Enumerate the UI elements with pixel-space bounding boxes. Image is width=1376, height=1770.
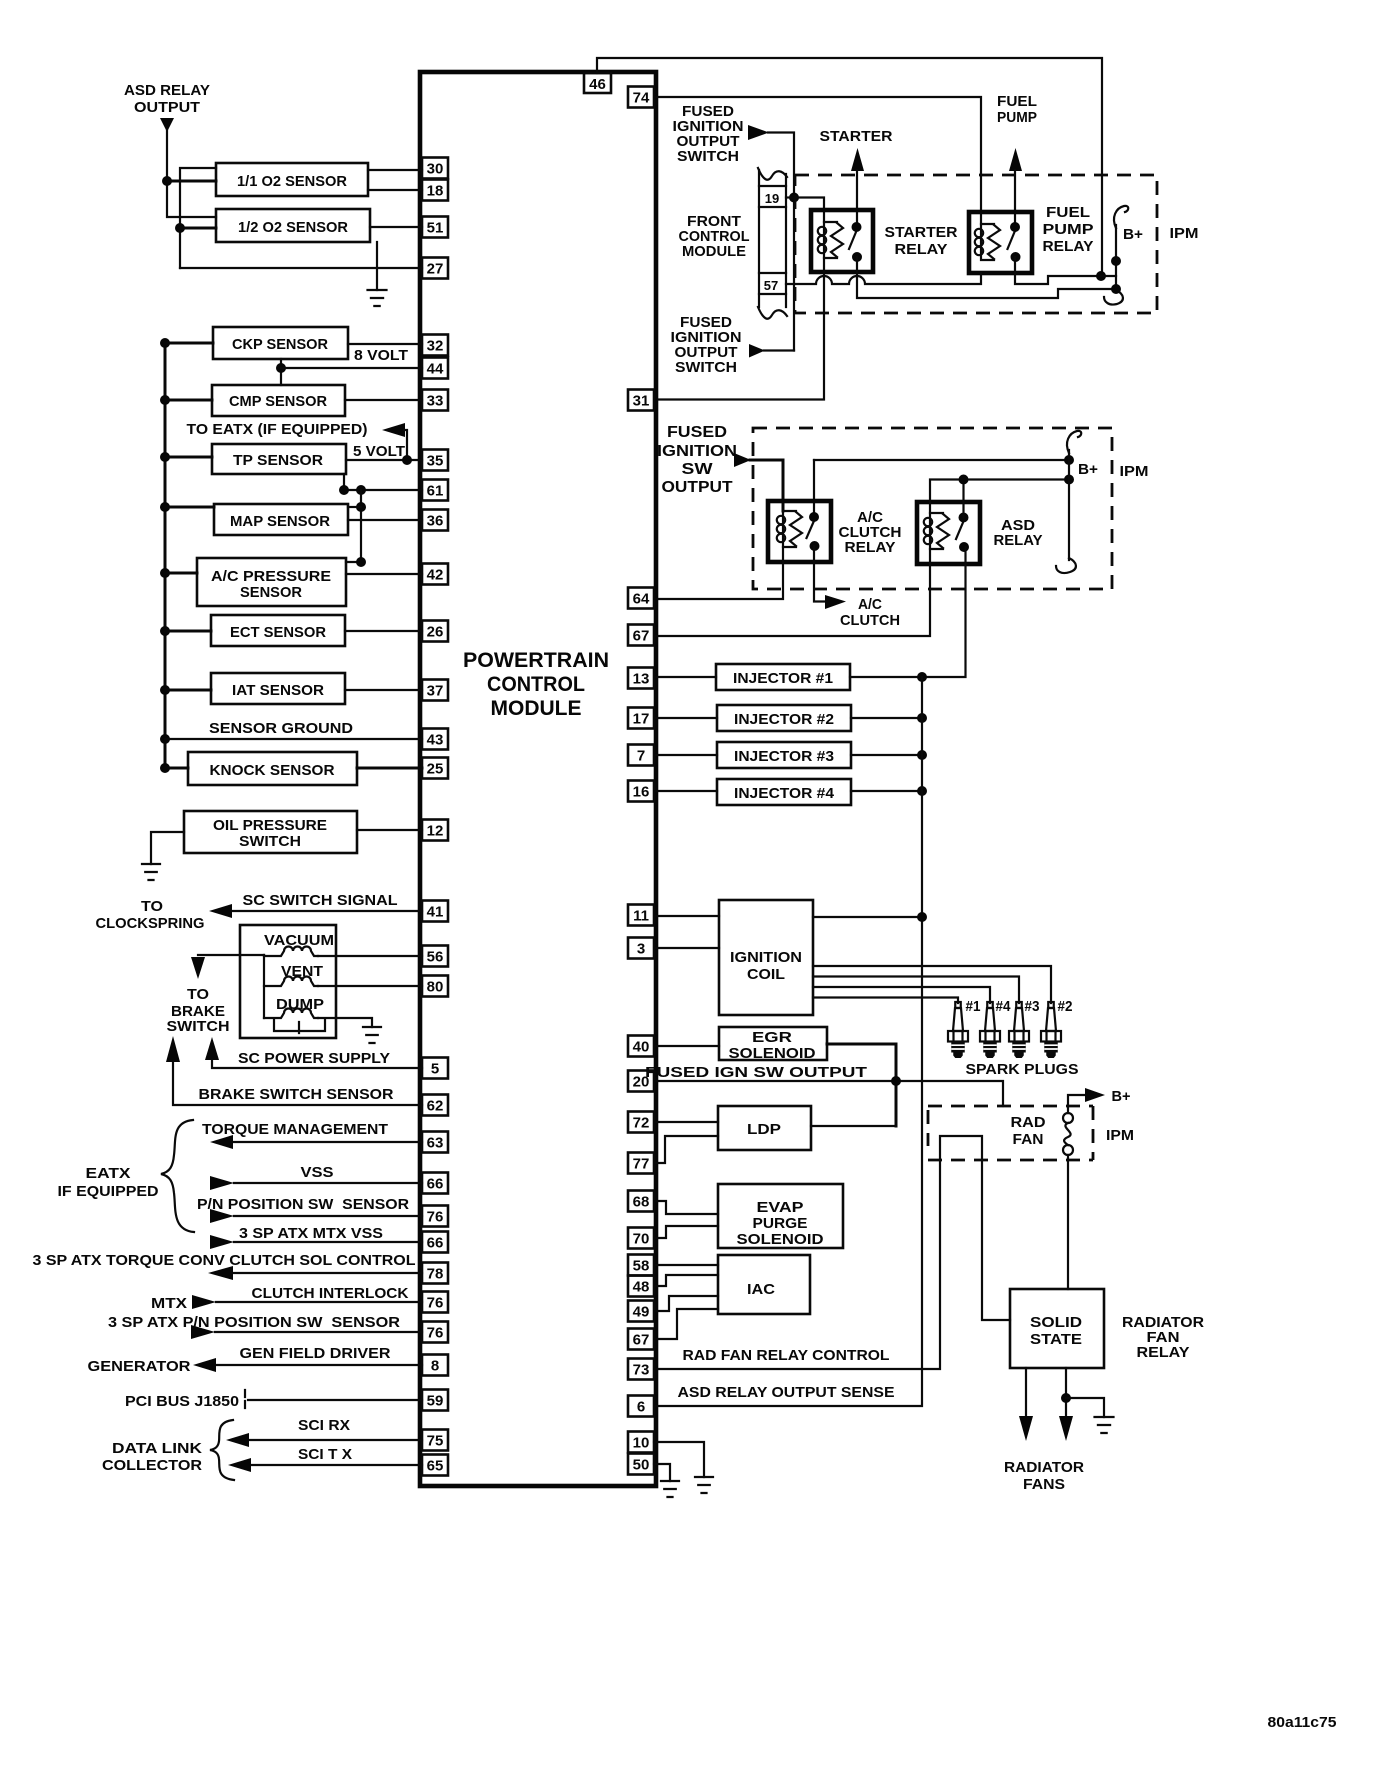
svg-text:8: 8: [431, 1358, 439, 1375]
wire bus to CMP: [165, 399, 212, 402]
wire pin 11 to ignition coil: [656, 915, 719, 917]
wire TP to pin 35: [346, 459, 422, 461]
pin 62 (PCM left): [422, 1095, 448, 1116]
svg-text:IGNITION: IGNITION: [657, 443, 737, 460]
wire dump bracket: [274, 1020, 325, 1033]
svg-text:ECT SENSOR: ECT SENSOR: [230, 624, 326, 641]
B+ rail (IPM 2): [1068, 450, 1070, 560]
svg-text:RELAY: RELAY: [1043, 238, 1094, 255]
wire MAP to pin 36: [348, 519, 422, 521]
component KNOCK SENSOR: [188, 752, 357, 785]
ground (O2 sensor): [368, 290, 387, 306]
wire pin 76 ATX P/N position: [215, 1331, 422, 1333]
wire pin 46 to B+ feed (top run): [597, 58, 1102, 276]
wire fan output left: [1025, 1368, 1027, 1416]
svg-text:58: 58: [633, 1258, 650, 1275]
pin 18 (PCM left): [422, 180, 448, 201]
svg-text:IAC: IAC: [747, 1281, 775, 1298]
svg-text:63: 63: [427, 1135, 444, 1152]
wire to pin 44: [281, 367, 422, 369]
node AC pressure 5V: [356, 557, 366, 567]
label DATA LINK COLLECTOR: [102, 1440, 202, 1474]
wire pin 66 ATX MTX VSS: [234, 1241, 422, 1243]
wire starter relay switch to starter: [856, 170, 858, 227]
pin 75 (PCM left): [422, 1430, 448, 1451]
wire sensor ground to pin 43: [165, 738, 422, 740]
spark plug #4: [980, 1002, 1000, 1058]
wire pin19 to starter relay coil: [794, 198, 824, 223]
wire pin 61 line: [344, 489, 422, 491]
arrow B+ (rad fan): [1085, 1088, 1105, 1102]
svg-text:16: 16: [633, 784, 650, 801]
wire O2 1/1 to pin 18: [368, 189, 422, 191]
node junction on ASD wire: [162, 176, 172, 186]
node ECT bus: [160, 626, 170, 636]
wire lower fused ignition link: [764, 349, 794, 351]
component CKP SENSOR: [213, 327, 348, 359]
svg-text:CKP SENSOR: CKP SENSOR: [232, 336, 328, 353]
arrow radiator fan right: [1059, 1416, 1073, 1441]
pin 56 (PCM left): [422, 946, 448, 967]
component TP SENSOR: [212, 444, 346, 474]
svg-text:10: 10: [633, 1435, 650, 1452]
pin 64 (PCM right): [628, 588, 654, 609]
pin 17 (PCM right): [628, 708, 654, 729]
pin 48 (PCM right): [628, 1276, 654, 1297]
wire pin 64 to A/C relay coil: [656, 547, 783, 599]
wire ACP to pin 42: [346, 573, 422, 575]
pin 31 (PCM right): [628, 390, 654, 411]
svg-text:COLLECTOR: COLLECTOR: [102, 1457, 202, 1474]
wire pin 10 to ground: [654, 1442, 704, 1477]
svg-text:#3: #3: [1025, 998, 1040, 1015]
svg-text:76: 76: [427, 1295, 444, 1312]
pin 43 (PCM left): [422, 729, 448, 750]
component IGNITION COIL: [719, 900, 813, 1015]
label STARTER RELAY: [885, 224, 958, 258]
svg-text:72: 72: [633, 1115, 650, 1132]
svg-text:VSS: VSS: [301, 1164, 334, 1181]
pin 76 (PCM left): [422, 1322, 448, 1343]
wire coil secondary to plug 1: [813, 998, 958, 1004]
node TP bus: [160, 452, 170, 462]
svg-text:SPARK PLUGS: SPARK PLUGS: [966, 1061, 1079, 1078]
svg-text:ASD RELAY OUTPUT SENSE: ASD RELAY OUTPUT SENSE: [678, 1384, 895, 1401]
wire pin 40 to EGR: [656, 1045, 719, 1047]
svg-text:3 SP ATX TORQUE CONV CLUTCH SO: 3 SP ATX TORQUE CONV CLUTCH SOL CONTROL: [33, 1252, 416, 1269]
relay A/C CLUTCH RELAY: [768, 501, 831, 562]
pin 70 (PCM right): [628, 1228, 654, 1249]
pin 50 (PCM right): [628, 1454, 654, 1475]
svg-text:65: 65: [427, 1458, 444, 1475]
svg-text:OUTPUT: OUTPUT: [134, 99, 200, 116]
wire 5V to MAP: [348, 506, 361, 508]
arrow MTX clutch interlock: [192, 1295, 216, 1309]
arrow down to brake switch: [191, 957, 205, 979]
wire pin 49 to IAC: [656, 1296, 718, 1311]
pin 7 (PCM right): [628, 745, 654, 766]
pin 36 (PCM left): [422, 510, 448, 531]
svg-text:MTX: MTX: [151, 1295, 187, 1312]
svg-text:27: 27: [427, 261, 444, 278]
ground (dump solenoid): [363, 1027, 381, 1043]
svg-text:46: 46: [589, 76, 606, 93]
wire pin 8 gen field driver: [216, 1364, 422, 1366]
svg-text:RAD: RAD: [1011, 1114, 1046, 1131]
wire CKP to pin 32: [348, 343, 422, 345]
node CKP bus: [160, 338, 170, 348]
IPM dashed enclosure (A/C clutch / ASD): [753, 428, 1112, 589]
label FUSED IGNITION OUTPUT SWITCH (upper): [673, 103, 744, 165]
arrow down from ASD RELAY OUTPUT: [160, 118, 174, 132]
svg-text:FUEL: FUEL: [997, 93, 1037, 110]
svg-text:SC SWITCH SIGNAL: SC SWITCH SIGNAL: [243, 892, 398, 909]
svg-text:P/N POSITION SW SENSOR: P/N POSITION SW SENSOR: [197, 1196, 409, 1213]
component EVAP PURGE SOLENOID: [718, 1184, 843, 1248]
wire bus to CKP: [165, 342, 213, 345]
component INJECTOR #4: [717, 779, 851, 805]
node B+ lower: [1111, 284, 1121, 294]
svg-text:26: 26: [427, 624, 444, 641]
pin 27 (PCM left): [422, 258, 448, 279]
component OIL PRESSURE SWITCH: [184, 811, 357, 853]
wire 5V distribution vertical: [346, 490, 361, 562]
component 1/1 O2 SENSOR: [216, 163, 368, 196]
svg-text:7: 7: [637, 748, 645, 765]
svg-text:SOLENOID: SOLENOID: [729, 1045, 816, 1062]
component speed control servo box: [240, 925, 336, 1038]
svg-text:SWITCH: SWITCH: [677, 148, 739, 165]
wire TP ground stub: [343, 474, 345, 490]
wire pin 59 PCI bus: [248, 1399, 422, 1401]
arrow torque conv clutch: [208, 1266, 233, 1280]
component IAC: [718, 1255, 810, 1314]
wire bus to IAT: [165, 689, 211, 692]
svg-text:CLUTCH: CLUTCH: [840, 612, 900, 629]
svg-text:1/1 O2 SENSOR: 1/1 O2 SENSOR: [237, 173, 347, 190]
svg-text:19: 19: [765, 191, 779, 206]
label FRONT CONTROL MODULE: [679, 213, 750, 260]
svg-text:INJECTOR #1: INJECTOR #1: [733, 670, 833, 687]
B+ hook bottom (IPM 2): [1056, 558, 1076, 573]
wire oil pressure to pin 12: [357, 829, 422, 831]
wire ASD B+ feed: [930, 480, 1069, 514]
wire pin 75 SCI RX: [249, 1439, 422, 1441]
svg-text:56: 56: [427, 949, 444, 966]
svg-text:SENSOR: SENSOR: [240, 584, 302, 601]
pin 68 (PCM right): [628, 1191, 654, 1212]
svg-text:48: 48: [633, 1279, 650, 1296]
svg-text:TO: TO: [187, 986, 209, 1003]
pin 65 (PCM left): [422, 1455, 448, 1476]
pin 80 (PCM left): [422, 976, 448, 997]
wire breaker to solid state relay: [1067, 1155, 1069, 1289]
pin 37 (PCM left): [422, 680, 448, 701]
wire pin 72 to LDP: [656, 1121, 718, 1123]
arrow fused ignition lower: [749, 344, 765, 358]
svg-text:#1: #1: [966, 998, 981, 1015]
label ASD RELAY OUTPUT: [124, 82, 210, 116]
svg-text:SW: SW: [682, 461, 714, 478]
component CMP SENSOR: [212, 385, 345, 416]
PCM module outline: [420, 72, 656, 1486]
ground (rad fan relay): [1095, 1417, 1114, 1433]
pin 59 (PCM left): [422, 1390, 448, 1411]
label ASD RELAY: [994, 517, 1043, 549]
svg-text:73: 73: [633, 1362, 650, 1379]
arrow up FUEL PUMP: [1009, 148, 1022, 171]
node FCM pin 19 junction: [789, 193, 799, 203]
svg-text:25: 25: [427, 761, 444, 778]
node B+ A/C feed: [1064, 455, 1074, 465]
arrow generator: [193, 1358, 216, 1372]
label RADIATOR FANS: [1004, 1459, 1084, 1493]
svg-text:INJECTOR #2: INJECTOR #2: [734, 711, 834, 728]
svg-text:3 SP ATX MTX VSS: 3 SP ATX MTX VSS: [239, 1225, 383, 1242]
svg-text:COIL: COIL: [747, 966, 785, 983]
svg-text:B+: B+: [1112, 1088, 1131, 1105]
svg-text:50: 50: [633, 1457, 650, 1474]
svg-text:TP SENSOR: TP SENSOR: [233, 452, 323, 469]
svg-text:FUEL: FUEL: [1046, 204, 1090, 221]
ground (pin 50): [661, 1481, 679, 1497]
node ACP bus: [160, 568, 170, 578]
wire second O2 branch vertical: [180, 168, 216, 268]
svg-text:B+: B+: [1123, 226, 1143, 243]
svg-text:PUMP: PUMP: [997, 109, 1037, 126]
pin 63 (PCM left): [422, 1132, 448, 1153]
component INJECTOR #3: [717, 742, 851, 768]
wire bus to TP: [165, 456, 212, 459]
wire INJECTOR #3 to ASD bus: [851, 754, 922, 756]
svg-text:SWITCH: SWITCH: [675, 359, 737, 376]
pin 16 (PCM right): [628, 781, 654, 802]
label EATX IF EQUIPPED: [58, 1165, 159, 1200]
pin 40 (PCM right): [628, 1036, 654, 1057]
node ASD switch feed: [959, 475, 969, 485]
svg-text:32: 32: [427, 338, 444, 355]
arrow up to brake switch (power): [205, 1037, 219, 1060]
svg-text:#4: #4: [996, 998, 1012, 1015]
solenoid DUMP coil: [264, 1009, 318, 1019]
svg-text:STATE: STATE: [1030, 1331, 1082, 1348]
wire pin 73 rad fan relay control: [656, 1136, 1010, 1369]
pin 66 (PCM left): [422, 1232, 448, 1253]
wire O2 1/1 to pin 30: [368, 169, 422, 171]
svg-text:PUMP: PUMP: [1043, 221, 1094, 238]
node MAP bus: [160, 502, 170, 512]
svg-text:OUTPUT: OUTPUT: [662, 479, 733, 496]
pin 58 (PCM right): [628, 1255, 654, 1276]
wire pin 62 brake switch sensor: [173, 1061, 422, 1105]
label FUSED IGNITION OUTPUT SWITCH (lower): [671, 314, 742, 376]
component IAT SENSOR: [211, 673, 345, 704]
wire pin 48 to IAC: [656, 1275, 718, 1286]
B+ hook top (IPM 2): [1067, 431, 1081, 453]
label RADIATOR FAN RELAY: [1122, 1314, 1204, 1361]
svg-text:GEN FIELD DRIVER: GEN FIELD DRIVER: [240, 1345, 391, 1362]
component INJECTOR #1: [716, 664, 850, 690]
pin 5 (PCM left): [422, 1058, 448, 1079]
wire pin 68 to EVAP: [656, 1201, 718, 1214]
wire pin 66 VSS: [234, 1182, 422, 1184]
pin 78 (PCM left): [422, 1263, 448, 1284]
wire to A/C clutch relay coil: [750, 460, 783, 511]
wire EGR to fused ign feed: [827, 1044, 896, 1126]
pin 25 (PCM left): [422, 758, 448, 779]
svg-text:RELAY: RELAY: [895, 241, 948, 258]
svg-text:DUMP: DUMP: [276, 996, 324, 1013]
node 5 volt junction: [402, 455, 412, 465]
svg-text:RADIATOR: RADIATOR: [1004, 1459, 1084, 1476]
wire starter switch output: [857, 257, 1116, 298]
node fan ground junction: [1061, 1393, 1071, 1403]
component SOLID STATE relay box: [1010, 1289, 1104, 1368]
label A/C CLUTCH RELAY: [839, 509, 902, 556]
wire ECT to pin 26: [345, 630, 422, 632]
wire coil secondary to plug 4: [813, 987, 990, 1003]
svg-text:INJECTOR #3: INJECTOR #3: [734, 748, 834, 765]
svg-text:5 VOLT: 5 VOLT: [353, 443, 405, 460]
node TP stub: [339, 485, 349, 495]
svg-text:PURGE: PURGE: [753, 1215, 808, 1232]
circuit breaker (rad fan): [1063, 1113, 1073, 1155]
arrow VSS: [210, 1176, 234, 1190]
svg-text:IF EQUIPPED: IF EQUIPPED: [58, 1183, 159, 1200]
svg-text:SC POWER SUPPLY: SC POWER SUPPLY: [238, 1050, 390, 1067]
wire pin 20 fused ign sw output: [656, 1081, 1003, 1106]
node EGR/LDP junction: [891, 1076, 901, 1086]
brace data link collector: [210, 1420, 234, 1480]
svg-text:13: 13: [633, 671, 650, 688]
svg-text:MODULE: MODULE: [682, 243, 746, 260]
pin 8 (PCM left): [422, 1355, 448, 1376]
svg-text:30: 30: [427, 161, 444, 178]
wire ASD switch riser: [962, 480, 964, 518]
node ASD bus at INJECTOR #2: [917, 713, 927, 723]
svg-text:RAD FAN RELAY CONTROL: RAD FAN RELAY CONTROL: [683, 1347, 890, 1364]
PCM title POWERTRAIN CONTROL MODULE: [463, 649, 609, 720]
wire bus to ACP: [165, 572, 197, 575]
svg-text:A/C: A/C: [858, 596, 882, 613]
svg-text:3: 3: [637, 941, 645, 958]
pin 76 (PCM left): [422, 1292, 448, 1313]
svg-text:75: 75: [427, 1433, 444, 1450]
wire vacuum sol to pin 56: [318, 955, 422, 957]
node B+ upper: [1111, 256, 1121, 266]
spark plug #1: [948, 1002, 968, 1058]
svg-text:43: 43: [427, 732, 444, 749]
wire pin 7 to INJECTOR #3: [656, 754, 717, 756]
svg-text:MODULE: MODULE: [491, 697, 582, 720]
svg-text:31: 31: [633, 393, 650, 410]
svg-text:EVAP: EVAP: [757, 1199, 804, 1216]
wire LDP to fused ign feed: [811, 1125, 896, 1127]
wire pin 13 to INJECTOR #1: [656, 676, 716, 678]
wire IAT to pin 37: [345, 689, 422, 691]
pin 44 (PCM left): [422, 358, 448, 379]
svg-text:EATX: EATX: [86, 1165, 131, 1182]
wire EATX branch to 5V: [404, 430, 407, 460]
arrow P/N position: [210, 1209, 234, 1223]
node IAT bus: [160, 685, 170, 695]
svg-text:37: 37: [427, 683, 444, 700]
svg-text:A/C PRESSURE: A/C PRESSURE: [211, 568, 331, 585]
svg-text:SCI T X: SCI T X: [298, 1446, 352, 1463]
arrow ATX MTX VSS: [210, 1235, 234, 1249]
label A/C CLUTCH: [840, 596, 900, 629]
node knock bus: [160, 763, 170, 773]
node ASD bus at INJECTOR #4: [917, 786, 927, 796]
wire INJECTOR #4 to ASD bus: [851, 790, 922, 792]
svg-text:STARTER: STARTER: [885, 224, 958, 241]
svg-text:57: 57: [764, 278, 778, 293]
svg-text:FUSED IGN SW OUTPUT: FUSED IGN SW OUTPUT: [645, 1064, 867, 1081]
wire ignition coil B+ feed: [813, 916, 922, 918]
svg-text:TO: TO: [141, 898, 163, 915]
pin 46 (PCM top): [584, 73, 611, 93]
svg-text:RELAY: RELAY: [845, 539, 896, 556]
wire fused ignition riser: [768, 133, 794, 351]
label FUEL PUMP RELAY: [1043, 204, 1094, 255]
svg-text:SENSOR GROUND: SENSOR GROUND: [209, 720, 353, 737]
node CMP bus: [160, 395, 170, 405]
pin 73 (PCM right): [628, 1359, 654, 1380]
ground (pin 10): [695, 1477, 713, 1493]
node ASD bus at INJECTOR #3: [917, 750, 927, 760]
svg-text:3 SP ATX P/N POSITION SW SENS: 3 SP ATX P/N POSITION SW SENSOR: [108, 1314, 400, 1331]
wire pin 65 SCI TX: [251, 1464, 422, 1466]
wire pin 5 SC power supply: [212, 1059, 422, 1068]
wire pin 16 to INJECTOR #4: [656, 790, 717, 792]
svg-text:B+: B+: [1078, 461, 1098, 478]
wire junction to B+ rail: [1101, 275, 1116, 277]
label TO BRAKE SWITCH: [167, 986, 230, 1035]
wire coil secondary to plug 2: [813, 966, 1051, 1003]
wire knock to pin 25: [357, 767, 422, 770]
pin 72 (PCM right): [628, 1112, 654, 1133]
node coil feed on ASD bus: [917, 912, 927, 922]
pin 20 (PCM right): [628, 1071, 654, 1092]
svg-text:76: 76: [427, 1325, 444, 1342]
wire pin 76 clutch interlock: [216, 1301, 422, 1303]
arrow fused ignition sw output: [734, 453, 751, 467]
wire starter coil to pin 31: [658, 258, 824, 400]
svg-text:FUSED: FUSED: [667, 424, 727, 441]
solenoid VACUUM coil: [264, 947, 318, 957]
relay FUEL PUMP RELAY: [969, 212, 1032, 273]
pin 77 (PCM right): [628, 1153, 654, 1174]
wire dump sol to ground: [318, 1018, 372, 1027]
svg-text:TO EATX (IF EQUIPPED): TO EATX (IF EQUIPPED): [187, 421, 368, 438]
pin 74 (PCM right): [628, 87, 654, 108]
wire pin 78 torque conv clutch: [233, 1272, 422, 1274]
arrow A/C CLUTCH: [825, 595, 846, 609]
svg-text:5: 5: [431, 1061, 439, 1078]
wire oil pressure to ground: [151, 832, 184, 864]
pin 49 (PCM right): [628, 1301, 654, 1322]
arrow fused ignition upper: [748, 125, 769, 140]
pin 26 (PCM left): [422, 621, 448, 642]
pin 30 (PCM left): [422, 158, 448, 179]
svg-text:33: 33: [427, 393, 444, 410]
wire ASD output vertical: [167, 130, 216, 217]
wire fuel pump relay switch to pump: [1014, 170, 1016, 227]
svg-text:OIL PRESSURE: OIL PRESSURE: [213, 817, 327, 834]
arrow ATX P/N position: [191, 1325, 215, 1339]
pin 12 (PCM left): [422, 820, 448, 841]
component INJECTOR #2: [717, 705, 851, 731]
